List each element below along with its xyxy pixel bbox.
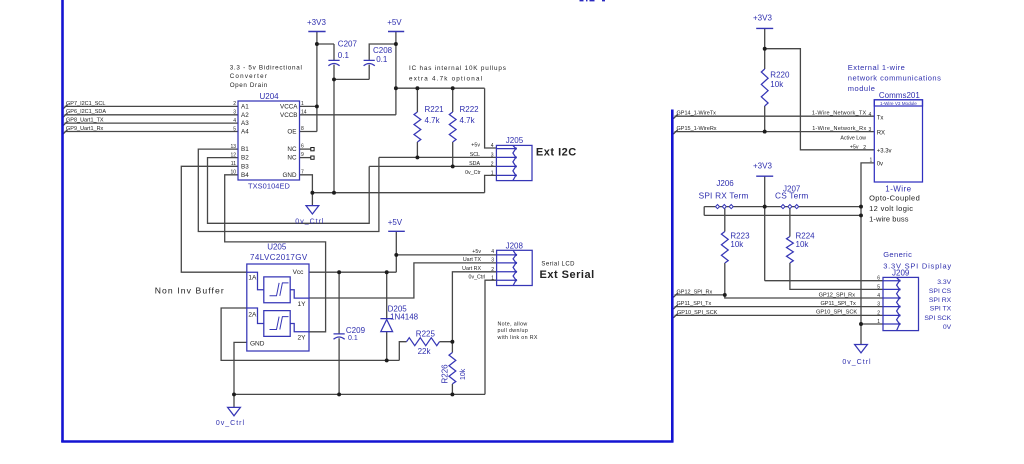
wire gnd rail upper — [312, 192, 484, 194]
wire term rail left link — [703, 207, 705, 216]
svg-text:1-wire buss: 1-wire buss — [869, 214, 909, 223]
svg-text:J209: J209 — [892, 269, 910, 278]
svg-text:SCL: SCL — [470, 152, 480, 158]
svg-text:0v_Ctrl: 0v_Ctrl — [295, 219, 324, 226]
svg-text:+3V3: +3V3 — [307, 18, 326, 27]
svg-text:OE: OE — [287, 129, 296, 136]
svg-text:4: 4 — [233, 118, 236, 124]
svg-text:J205: J205 — [506, 136, 524, 145]
node +5V rail — [394, 86, 398, 90]
wire GP7_I2C1_SCL to U204 A1 — [63, 105, 238, 109]
node C209 bottom — [337, 392, 341, 396]
svg-text:12: 12 — [230, 152, 236, 158]
svg-text:4: 4 — [491, 249, 494, 255]
svg-text:Active Low: Active Low — [840, 135, 866, 141]
node VCCA junction — [315, 104, 319, 108]
svg-text:+5v: +5v — [472, 249, 481, 255]
svg-text:3.3V: 3.3V — [937, 279, 951, 286]
wire module 3v3 feed — [765, 49, 875, 150]
wire GP11_SPI_Tx to J209 pin3 — [673, 305, 883, 309]
resistor R220 — [761, 69, 768, 106]
jumper J207 pin diamonds — [781, 205, 799, 209]
svg-text:1: 1 — [491, 275, 494, 281]
svg-text:Opto-Coupled: Opto-Coupled — [869, 194, 920, 203]
node +5v serial tee — [394, 253, 398, 257]
svg-text:R225: R225 — [416, 330, 436, 339]
svg-text:1-Wire V3 Module: 1-Wire V3 Module — [880, 101, 917, 106]
svg-text:Vcc: Vcc — [293, 269, 305, 276]
capacitor C209 — [334, 334, 345, 339]
svg-text:4.7k: 4.7k — [425, 116, 441, 125]
svg-text:0.1: 0.1 — [376, 55, 388, 64]
resistor R225 (horizontal) — [407, 338, 440, 346]
node R220 top tee — [763, 47, 767, 51]
U205 schmitt symbol 2 — [270, 317, 289, 330]
node R222 top — [451, 86, 455, 90]
wire 2A route — [221, 308, 399, 360]
svg-text:2A: 2A — [248, 312, 257, 319]
sheet border left — [61, 0, 64, 442]
svg-text:6: 6 — [301, 144, 304, 150]
wire term rail upper — [704, 206, 861, 208]
svg-text:0v_Ctrl: 0v_Ctrl — [842, 359, 871, 366]
wire +5v to J208 pin4 — [396, 254, 496, 256]
wire C207 bottom riser to gnd rail — [333, 65, 335, 193]
svg-text:GND: GND — [250, 340, 265, 347]
svg-text:8: 8 — [301, 126, 304, 132]
svg-text:pull dwn/up: pull dwn/up — [498, 328, 529, 334]
svg-text:J208: J208 — [506, 242, 524, 251]
wire term rail lower — [704, 214, 861, 216]
wire C209 vertical — [338, 272, 340, 394]
node C207/C208 bottom — [332, 77, 336, 81]
wire +5v rail to J205 — [396, 88, 497, 148]
wire 1Y route to J208 pin3 — [309, 263, 497, 298]
wire R226 leads — [451, 342, 453, 395]
svg-text:U205: U205 — [267, 243, 287, 252]
wire C208 bottom link — [334, 65, 369, 80]
svg-text:Tx: Tx — [877, 115, 884, 121]
svg-text:SPI RX Term: SPI RX Term — [699, 190, 749, 200]
svg-text:module: module — [848, 84, 876, 93]
svg-text:0v_Ctrl: 0v_Ctrl — [216, 420, 245, 427]
svg-text:External 1-wire: External 1-wire — [848, 63, 906, 72]
svg-text:11: 11 — [231, 161, 236, 167]
node gnd rail lower left — [232, 392, 236, 396]
svg-text:B1: B1 — [241, 146, 249, 153]
svg-text:10k: 10k — [770, 80, 784, 89]
wire NC pin9 stub — [300, 157, 311, 159]
U205 buffer 1 inner — [247, 272, 309, 302]
wire U204 GND pin7 — [300, 175, 313, 193]
capacitor C207 — [328, 60, 339, 65]
svg-text:+5v: +5v — [850, 145, 859, 151]
resistor R224 — [787, 237, 794, 263]
svg-text:+3V3: +3V3 — [753, 162, 772, 171]
svg-text:3: 3 — [491, 152, 494, 158]
svg-text:+3V3: +3V3 — [753, 14, 772, 23]
svg-text:+5V: +5V — [387, 18, 402, 27]
resistor R226 — [449, 353, 456, 384]
svg-text:GND: GND — [283, 172, 297, 179]
svg-text:U204: U204 — [260, 92, 280, 101]
svg-text:SPI TX: SPI TX — [930, 306, 952, 313]
power +3V3 bar (R220) — [756, 27, 773, 29]
power +3V3 bar (top left) — [308, 31, 325, 33]
svg-text:R220: R220 — [770, 70, 790, 79]
node R225/R226/RX — [450, 340, 454, 344]
svg-text:1-Wire_Network_TX: 1-Wire_Network_TX — [812, 111, 867, 117]
wire C208 top — [369, 44, 396, 60]
ground 0v_Ctrl (J209) — [855, 345, 868, 353]
wire R220 leads — [764, 28, 766, 131]
svg-text:2: 2 — [491, 267, 494, 273]
svg-text:4: 4 — [491, 143, 494, 149]
svg-text:4: 4 — [869, 112, 872, 118]
svg-text:0V: 0V — [943, 324, 952, 331]
node R223 bottom / Rx wire — [723, 293, 727, 297]
svg-text:1: 1 — [877, 319, 880, 325]
svg-text:network communications: network communications — [848, 74, 942, 83]
wire B3 route to U205 1A — [181, 166, 247, 272]
power +3V3 bar (term) — [756, 175, 773, 177]
svg-text:0.1: 0.1 — [348, 335, 358, 342]
svg-text:GP6_I2C1_SDA: GP6_I2C1_SDA — [66, 109, 106, 115]
sheet border bottom — [61, 440, 673, 443]
wire GP14 to module Tx — [673, 114, 874, 118]
wire R224 leads to J209 pin5 — [790, 208, 883, 289]
svg-text:GP12_SPI_Rx: GP12_SPI_Rx — [677, 289, 713, 295]
svg-text:0v_Ctr: 0v_Ctr — [465, 170, 481, 176]
svg-text:1Y: 1Y — [298, 301, 307, 308]
wire SCL row to J205 pin3 — [379, 156, 497, 158]
wire R221 leads — [416, 88, 418, 157]
svg-text:A3: A3 — [241, 120, 249, 127]
svg-text:Non Inv Buffer: Non Inv Buffer — [155, 286, 225, 296]
wire +3V3 second drop to J209 pin6 — [765, 176, 883, 281]
svg-text:3.3 - 5v Bidirectional: 3.3 - 5v Bidirectional — [230, 65, 303, 72]
wire J208 pin2 RX drop — [452, 272, 496, 342]
svg-text:6: 6 — [877, 276, 880, 282]
svg-text:TXS0104ED: TXS0104ED — [248, 182, 290, 191]
wire J209 pin1 — [861, 323, 883, 325]
svg-text:extra 4.7k optional: extra 4.7k optional — [409, 75, 483, 82]
wire OE pin8 — [300, 131, 317, 133]
wire module 0v stub and drop — [861, 163, 874, 345]
svg-text:GP12_SPI_Rx: GP12_SPI_Rx — [819, 292, 856, 298]
svg-text:RX: RX — [877, 130, 885, 136]
wire J205 pin1 0v drop — [485, 175, 497, 192]
svg-text:SDA: SDA — [469, 161, 480, 167]
svg-text:2: 2 — [233, 101, 236, 107]
wire U205 GND pin — [234, 342, 247, 394]
svg-text:3: 3 — [491, 258, 494, 264]
svg-text:NC: NC — [287, 146, 297, 153]
svg-text:GP11_SPI_Tx: GP11_SPI_Tx — [820, 301, 856, 307]
svg-text:+5v: +5v — [471, 143, 480, 149]
svg-text:C208: C208 — [373, 46, 393, 55]
svg-text:Uart RX: Uart RX — [462, 266, 481, 272]
svg-text:Converter: Converter — [230, 73, 268, 80]
svg-text:10k: 10k — [796, 240, 810, 249]
node D205 bottom — [385, 358, 389, 362]
node R221 bottom / SCL — [415, 155, 419, 159]
svg-text:13: 13 — [230, 144, 236, 150]
svg-text:3: 3 — [877, 302, 880, 308]
svg-text:Serial LCD: Serial LCD — [541, 262, 575, 268]
svg-text:with link on RX: with link on RX — [498, 335, 538, 341]
wire SDA row to J205 pin2 — [369, 165, 496, 167]
wire U205 Vcc row — [309, 271, 396, 273]
power +5V bar (middle) — [388, 230, 405, 232]
power +5V bar (top) — [388, 31, 404, 33]
ground 0v_Ctrl (U205) — [228, 407, 241, 415]
wire VCCB pin14 to +5V — [300, 114, 396, 116]
wire B2 route to SDA — [208, 158, 370, 224]
wire NC pin6 stub — [300, 148, 311, 150]
svg-text:B2: B2 — [241, 155, 249, 162]
node +3V3 term rail — [763, 205, 767, 209]
svg-text:22k: 22k — [418, 347, 432, 356]
wire gnd rail lower — [234, 393, 485, 395]
wire J208 pin1 0v drop — [485, 280, 497, 394]
svg-text:2: 2 — [863, 145, 866, 151]
wire +3V3 vertical drop — [316, 32, 318, 132]
resistor R223 — [721, 232, 728, 264]
svg-text:SPI RX: SPI RX — [929, 297, 952, 304]
node gnd rail at caps riser — [332, 191, 336, 195]
sheet border right — [671, 110, 674, 443]
svg-text:A4: A4 — [241, 129, 249, 136]
cropped text fragment top edge — [580, 0, 606, 2]
wire GP8_Uart1_TX to U204 A3 — [63, 121, 238, 125]
svg-text:Note, allow: Note, allow — [498, 322, 528, 328]
svg-text:J206: J206 — [716, 179, 734, 188]
wire C207 top — [317, 44, 334, 60]
svg-text:GP8_Uart1_TX: GP8_Uart1_TX — [66, 118, 104, 124]
svg-text:NC: NC — [287, 155, 297, 162]
NC square pin6 — [311, 148, 314, 151]
svg-text:GP7_I2C1_SCL: GP7_I2C1_SCL — [66, 101, 105, 107]
connector J205 — [496, 145, 532, 180]
svg-text:A2: A2 — [241, 112, 249, 119]
module header sub-box — [874, 100, 922, 106]
svg-text:SPI CS: SPI CS — [929, 288, 952, 295]
svg-text:+5V: +5V — [388, 218, 403, 227]
node +3V3/C207 — [315, 42, 319, 46]
wire GP6_I2C1_SDA to U204 A2 — [63, 113, 238, 117]
wire VCCA pin1 to +3V3 rail — [300, 105, 317, 107]
node R222 bottom / SDA — [451, 164, 455, 168]
node gnd rail at U204 — [310, 191, 314, 195]
svg-text:Comms201: Comms201 — [879, 91, 920, 100]
svg-text:1: 1 — [491, 170, 494, 176]
wire B4 route to U205 2Y — [225, 175, 326, 332]
svg-text:GP10_SPI_SCK: GP10_SPI_SCK — [677, 310, 718, 316]
svg-text:C209: C209 — [346, 326, 366, 335]
wire D205 vertical — [386, 272, 388, 360]
connector J209 — [883, 277, 919, 330]
svg-text:Uart TX: Uart TX — [463, 257, 482, 263]
jumper J206 pin diamonds — [716, 205, 734, 209]
wire gnd stem lower — [233, 394, 235, 407]
svg-text:0v_Ctrl: 0v_Ctrl — [469, 274, 486, 280]
svg-text:10k: 10k — [730, 240, 744, 249]
svg-text:2: 2 — [877, 310, 880, 316]
node R220 bottom / RX wire — [763, 130, 767, 134]
svg-text:R222: R222 — [460, 105, 480, 114]
node J209 pin1 / 0v — [859, 322, 863, 326]
wire GP9_Uart1_RX to U204 A4 — [63, 130, 238, 134]
svg-text:Ext Serial: Ext Serial — [540, 269, 595, 281]
connector J208 — [497, 250, 533, 285]
svg-text:VCCB: VCCB — [280, 112, 298, 119]
svg-text:12 volt logic: 12 volt logic — [869, 204, 913, 213]
svg-text:SPI SCK: SPI SCK — [924, 315, 951, 322]
svg-text:3: 3 — [869, 127, 872, 133]
wire gnd stem upper — [311, 193, 313, 206]
module Comms201 box — [874, 100, 922, 182]
wire GP10_SPI_SCK to J209 pin2 — [673, 314, 883, 318]
diode D205 — [380, 319, 393, 332]
svg-text:14: 14 — [301, 109, 307, 115]
svg-text:1N4148: 1N4148 — [390, 313, 419, 322]
U205 buffer 2 inner — [247, 308, 309, 336]
svg-text:2Y: 2Y — [298, 334, 307, 341]
svg-text:B4: B4 — [241, 172, 249, 179]
wire +5V second drop — [395, 231, 397, 272]
wire +5V vertical drop — [395, 32, 397, 115]
wire R225 left lead — [399, 342, 452, 361]
resistor R221 — [414, 112, 421, 142]
node D205 top — [385, 270, 389, 274]
svg-text:5: 5 — [233, 126, 236, 132]
svg-text:0v: 0v — [877, 162, 883, 168]
svg-text:4.7k: 4.7k — [460, 116, 476, 125]
svg-text:C207: C207 — [338, 40, 358, 49]
svg-text:3: 3 — [233, 110, 236, 116]
svg-text:1: 1 — [301, 101, 304, 107]
svg-text:9: 9 — [301, 152, 304, 158]
svg-text:GP9_Uart1_Rx: GP9_Uart1_Rx — [66, 126, 104, 132]
svg-text:Ext I2C: Ext I2C — [536, 147, 577, 159]
svg-text:5: 5 — [877, 284, 880, 290]
svg-text:10k: 10k — [460, 368, 467, 380]
U205 schmitt symbol 1 — [270, 283, 289, 296]
wire R222 leads — [452, 88, 454, 166]
svg-text:R221: R221 — [425, 105, 445, 114]
svg-text:A1: A1 — [241, 103, 249, 110]
node term rail2 / 0v drop — [859, 213, 863, 217]
node R226 bottom — [450, 392, 454, 396]
ground 0v_Ctrl (U204) — [306, 206, 319, 214]
wire B1 route to SCL — [198, 149, 379, 231]
svg-text:Open Drain: Open Drain — [230, 82, 268, 89]
svg-text:1A: 1A — [248, 275, 257, 282]
U204 chip box — [238, 101, 300, 180]
wire R223 leads — [724, 208, 726, 295]
svg-text:+3.3v: +3.3v — [877, 148, 892, 154]
node R221 top — [415, 86, 419, 90]
svg-text:1: 1 — [870, 158, 873, 164]
node term rail1 / 0v drop — [859, 205, 863, 209]
NC square pin9 — [311, 156, 314, 159]
svg-text:B3: B3 — [241, 163, 249, 170]
wire GP12_SPI_Rx to J209 pin4 — [673, 293, 883, 298]
svg-text:GP11_SPI_Tx: GP11_SPI_Tx — [677, 301, 712, 307]
svg-text:GP10_SPI_SCK: GP10_SPI_SCK — [816, 310, 857, 316]
svg-text:0.1: 0.1 — [338, 51, 350, 60]
svg-text:1-Wire: 1-Wire — [885, 184, 911, 193]
node C209 top — [337, 270, 341, 274]
resistor R222 — [449, 112, 456, 142]
svg-text:GP14_1-WireTx: GP14_1-WireTx — [677, 111, 717, 117]
node +5V/C208 — [394, 42, 398, 46]
svg-text:VCCA: VCCA — [280, 103, 298, 110]
U205 chip box — [247, 264, 309, 351]
svg-text:Generic: Generic — [883, 250, 912, 259]
svg-text:1-Wire_Network_Rx: 1-Wire_Network_Rx — [812, 126, 866, 132]
svg-text:2: 2 — [491, 161, 494, 167]
svg-text:GP15_1-WireRx: GP15_1-WireRx — [677, 126, 717, 132]
svg-text:74LVC2017GV: 74LVC2017GV — [250, 253, 308, 262]
svg-text:10: 10 — [230, 170, 236, 176]
capacitor C208 — [364, 60, 375, 65]
svg-text:CS Term: CS Term — [775, 190, 809, 200]
wire GP15 to module RX — [673, 130, 874, 134]
svg-text:4: 4 — [877, 293, 880, 299]
svg-text:R226: R226 — [441, 364, 450, 384]
svg-text:IC has internal 10K pullups: IC has internal 10K pullups — [409, 65, 507, 72]
svg-text:7: 7 — [301, 169, 304, 175]
